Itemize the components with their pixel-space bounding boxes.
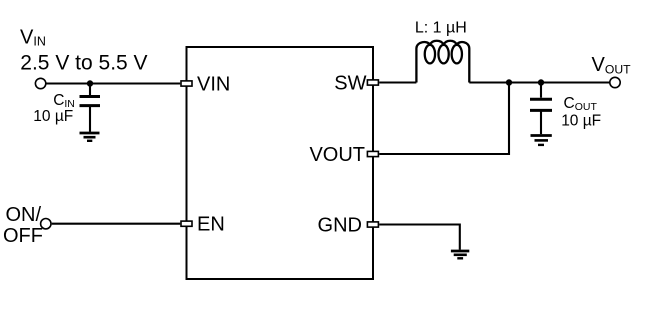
ground (GND pin) (451, 251, 469, 258)
wire GND (379, 225, 460, 250)
pin VIN (181, 74, 230, 96)
svg-text:10 µF: 10 µF (33, 108, 73, 125)
svg-text:EN: EN (197, 214, 225, 236)
inductor L1 (416, 41, 469, 83)
svg-text:VOUT: VOUT (309, 144, 365, 166)
wire CIN top lead (89, 84, 91, 96)
svg-text:ON/: ON/ (6, 204, 42, 226)
label L: 1 uH (415, 19, 467, 36)
node VOUT feedback junction (506, 79, 512, 85)
label ON/OFF (3, 204, 43, 247)
pin VOUT (309, 144, 378, 166)
svg-text:VIN: VIN (197, 74, 230, 96)
IC U1 box (187, 47, 374, 279)
svg-text:SW: SW (334, 73, 366, 95)
wire VOUT feedback (379, 83, 509, 155)
ground (COUT) (531, 136, 552, 145)
terminal ON/OFF (open circle) (41, 219, 51, 229)
svg-text:L: 1 µH: L: 1 µH (415, 19, 467, 36)
svg-text:GND: GND (318, 215, 362, 237)
ground (CIN) (80, 133, 100, 141)
label COUT 10 uF (561, 95, 601, 129)
wire COUT top lead (540, 83, 542, 98)
wire SW to inductor (379, 81, 416, 83)
wire EN (52, 223, 181, 225)
label VIN input voltage (20, 27, 148, 75)
wire CIN bottom lead (89, 107, 91, 132)
svg-text:2.5 V to 5.5 V: 2.5 V to 5.5 V (20, 51, 147, 74)
capacitor CIN (80, 97, 101, 106)
capacitor COUT (530, 99, 552, 110)
pin SW (334, 73, 378, 95)
label VOUT output (592, 54, 632, 76)
terminal VOUT (open circle) (610, 77, 620, 87)
node COUT junction (538, 79, 544, 85)
svg-text:10 µF: 10 µF (561, 112, 601, 129)
wire output rail (469, 81, 610, 83)
pin EN (181, 214, 225, 236)
node input junction (87, 80, 93, 86)
terminal VIN (open circle) (35, 78, 45, 88)
label CIN 10 uF (33, 92, 75, 125)
pin GND (318, 215, 379, 237)
wire input rail (46, 82, 180, 84)
wire COUT bottom lead (540, 111, 542, 134)
svg-text:OFF: OFF (3, 225, 43, 247)
